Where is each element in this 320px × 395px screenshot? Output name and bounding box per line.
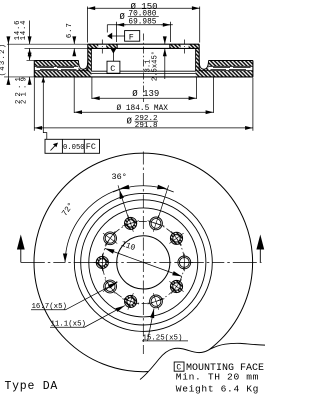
svg-text:6.7: 6.7 — [66, 22, 74, 38]
vent vane dashes left — [37, 67, 75, 69]
hatched hole O11.1 at 342 deg — [120, 212, 142, 234]
horizontal centerline — [21, 261, 262, 263]
bolt hole O15.25 at 306 deg — [98, 226, 123, 251]
dim Ø70.080/69.985 ext lines — [116, 22, 170, 42]
bolt hole centerline left — [101, 40, 103, 54]
svg-text:Ø: Ø — [127, 117, 133, 127]
white mask under note block — [140, 343, 265, 395]
svg-text:14.4: 14.4 — [20, 20, 28, 40]
svg-text:Weight 6.4 Kg: Weight 6.4 Kg — [176, 384, 259, 395]
runout feature control frame — [45, 139, 100, 153]
braking band right: bottom plate hatch — [196, 71, 253, 77]
svg-text:Type DA: Type DA — [5, 380, 59, 393]
svg-text:Ø 184.5 MAX: Ø 184.5 MAX — [117, 104, 169, 113]
band vent inner lines left — [34, 66, 88, 70]
SECTION VIEW — [34, 34, 253, 103]
svg-text:FC: FC — [86, 142, 96, 152]
dim Ø110 lower-right arrowhead — [172, 271, 182, 276]
hatched hole O11.1 at 126 deg — [164, 274, 189, 299]
bolt hole centerline right — [184, 40, 186, 54]
hatched hole O11.1 at 54 deg — [164, 226, 189, 251]
hat wall inner left — [90, 48, 92, 71]
FRONT VIEW — [17, 152, 264, 372]
fillet U channel left (white) — [79, 61, 88, 70]
hat wall right hatch — [196, 48, 200, 71]
dim Ø110 upper-left arrowhead — [105, 248, 115, 253]
svg-text:Min. TH 20 mm: Min. TH 20 mm — [176, 372, 259, 383]
bolt hole O15.25 at 18 deg — [145, 212, 167, 234]
svg-text:Ø: Ø — [120, 12, 126, 22]
braking band right: top plate hatch — [208, 61, 253, 67]
band top edge left — [34, 60, 78, 62]
dim 22.1/21.9 — [29, 53, 31, 61]
bolt circle (Ø110, centerline) — [102, 221, 184, 303]
svg-text:(43.2): (43.2) — [0, 43, 7, 77]
svg-text:Ø 139: Ø 139 — [132, 89, 159, 99]
hatched hole O11.1 at 270 deg — [94, 254, 112, 272]
datum C note box — [174, 362, 184, 371]
braking band right: inner end hatch below fillet — [199, 67, 208, 73]
datum F leader + triangle — [112, 35, 125, 37]
dim Ø292.2/291.8 ext lines — [34, 78, 253, 131]
band top edge right — [209, 60, 253, 62]
dim Ø184.5 MAX line — [74, 111, 213, 113]
dim 72deg upper arrowhead — [120, 190, 124, 199]
dim 36deg right arrowhead — [157, 185, 167, 189]
dim Ø292.2/291.8 line — [34, 127, 253, 129]
hat outer circle (Ø150) — [81, 200, 206, 325]
dim 36deg arc — [113, 186, 174, 192]
dim 6.7 — [73, 38, 75, 45]
svg-text:0.050: 0.050 — [63, 144, 85, 152]
center bore circle (Ø70) — [117, 236, 170, 289]
hat wall outer right — [198, 44, 200, 71]
fillet U channel left outline — [79, 61, 88, 70]
ext line plate bottom to left — [25, 47, 88, 49]
braking band left: bottom plate hatch — [34, 71, 91, 77]
shoulder circle (Ø139) — [89, 208, 198, 317]
ext lines band left — [4, 60, 34, 77]
svg-text:69.985: 69.985 — [128, 18, 156, 26]
hat wall inner right — [195, 48, 197, 71]
hat skirt bottom edge lines — [91, 71, 195, 73]
datum C leader + triangle — [112, 53, 114, 62]
braking band inner circle (Ø184.5) — [74, 193, 212, 331]
runout leader — [43, 77, 47, 139]
NOTES — [5, 343, 266, 395]
band bottom edge full — [34, 76, 253, 78]
svg-text:2.5x45°: 2.5x45° — [150, 51, 159, 81]
hat plate bottom line — [88, 47, 199, 49]
datum F box — [125, 31, 140, 42]
bore wall right — [169, 44, 171, 48]
left section arrow — [20, 248, 22, 263]
dim 36deg ext lines — [118, 185, 169, 217]
dim 14.6/14.4 — [29, 21, 31, 45]
bolt hole O15.25 at 162 deg — [145, 290, 167, 312]
dim (43.2) — [7, 44, 9, 77]
right section arrow — [259, 248, 261, 263]
band left face — [33, 61, 35, 77]
dim Ø110 diagonal line — [105, 248, 182, 276]
datum C box — [107, 61, 120, 73]
bore wall left — [116, 44, 118, 48]
svg-text:110: 110 — [120, 240, 137, 253]
svg-text:72°: 72° — [60, 201, 76, 218]
bolt hole O15.25 at 234 deg — [98, 274, 123, 299]
hat plate hatch segments — [88, 44, 98, 48]
dim Ø70.080/69.985 line with inside arrows — [107, 24, 173, 26]
svg-text:70.080: 70.080 — [128, 10, 156, 18]
fillet U channel right outline — [199, 61, 208, 70]
hat plate top line — [88, 43, 199, 45]
dim Ø150 line — [87, 7, 199, 9]
dim 72deg lower arrowhead — [63, 254, 67, 263]
ext line plate top to left — [7, 43, 88, 45]
vent vane dashes right — [213, 67, 251, 69]
band vent inner lines right — [199, 66, 253, 70]
braking band left: inner end hatch below fillet — [79, 67, 88, 73]
fillet U channel right (white) — [199, 61, 208, 70]
hat wall left hatch — [88, 48, 92, 71]
dim 72deg arc — [65, 189, 119, 262]
dim 36deg left arrowhead — [119, 185, 129, 189]
break wavy line — [140, 343, 265, 379]
dim Ø139 line — [92, 97, 196, 99]
braking band left: top plate hatch — [34, 61, 78, 67]
dim Ø184.5 MAX ext lines — [74, 78, 213, 114]
dim Ø139 ext lines — [92, 77, 196, 100]
dim Ø150 ext lines — [87, 7, 199, 43]
outer diameter circle — [34, 153, 253, 372]
svg-text:291.8: 291.8 — [135, 122, 158, 130]
svg-text:F: F — [129, 32, 134, 42]
SECTION DIMENSIONS — [0, 2, 253, 153]
hatched hole O11.1 at 198 deg — [120, 290, 142, 312]
hat wall outer left — [87, 44, 89, 71]
runout symbol arrow — [51, 143, 58, 151]
dim 3.1 (x=164.8) — [164, 38, 166, 44]
band right face — [252, 61, 254, 77]
vertical centerline — [142, 152, 144, 355]
svg-text:C: C — [110, 64, 115, 74]
bolt hole O15.25 at 90 deg — [176, 254, 194, 272]
svg-text:36°: 36° — [112, 172, 127, 182]
svg-text:21.9: 21.9 — [21, 74, 29, 104]
disc axis centerline — [142, 34, 144, 103]
